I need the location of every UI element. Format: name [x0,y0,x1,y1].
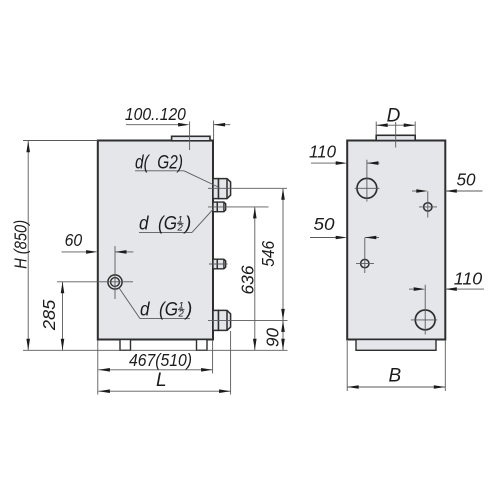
dimension 90 [263,320,285,350]
svg-text:H (850): H (850) [10,220,30,269]
svg-text:50: 50 [457,169,476,189]
extension line port2 centre (636 ref) [208,206,269,208]
front view: left foot [120,340,131,351]
dimension 636 [238,207,258,350]
centre lines small hole lower [356,238,374,273]
svg-text:467(510): 467(510) [129,350,192,370]
dimension 60 [62,230,134,254]
side view: block body [347,141,445,340]
fitting G1/2 lower (port 3) [213,259,226,269]
svg-text:50: 50 [314,214,335,234]
svg-text:d (G: d (G [140,300,178,321]
svg-text:): ) [184,300,192,321]
side view: filler cap [376,135,415,140]
side view: small hole upper-right [424,203,432,211]
front port centre lines [57,246,133,299]
dimension 100..120 [125,104,230,150]
dimension 467(510) [98,340,213,395]
dimension L [98,331,230,395]
fitting G2 upper (port 1) [213,179,231,199]
dimension 285 [39,282,64,351]
side view: small hole lower-left [361,259,369,267]
svg-text:2: 2 [178,309,185,320]
dimension B [347,341,445,392]
centre lines big hole upper [355,160,380,202]
fitting G1/2 upper (port 2) [213,202,226,212]
label d( G2) with leader [135,153,220,188]
side view: base plate [356,340,436,351]
dimension 110 upper-left [309,142,380,165]
centre lines small hole upper [419,191,437,217]
dimension 110 lower-right [409,268,484,291]
side view: big hole lower-right [415,310,435,330]
dimension D [376,106,415,136]
svg-text:636: 636 [238,265,258,294]
svg-text:546: 546 [258,241,278,267]
front face port circle (d G1/2) [108,275,122,289]
svg-text:90: 90 [263,328,283,347]
svg-text:d (G: d (G [139,214,177,235]
dimension H(850) [10,141,98,351]
svg-text:110: 110 [309,142,336,162]
svg-text:): ) [183,214,191,235]
base bottom reference line [23,349,288,351]
fitting G2 lower (port 4) [213,310,231,330]
centre lines big hole lower [411,285,437,335]
svg-text:100..120: 100..120 [125,104,186,124]
svg-text:L: L [156,370,167,391]
svg-text:d( G2): d( G2) [135,153,183,174]
dimension 50 mid-left [310,214,379,239]
svg-text:D: D [387,106,401,127]
label d (G1/2) lower with leader [119,287,193,320]
front view: right foot [197,340,208,351]
label d (G1/2) upper with leader [139,209,214,235]
svg-text:B: B [389,366,402,387]
extension line port1 centre (546 ref) [208,187,287,189]
svg-text:285: 285 [39,299,59,331]
dimension 50 upper-right [412,169,483,193]
extension line port4 centre (90 ref) [208,319,288,321]
svg-text:2: 2 [177,223,184,234]
svg-text:110: 110 [454,268,483,288]
front view: tank body [98,141,213,340]
extension line port3 centre stub [209,263,228,265]
side view: big hole upper-left [357,178,377,198]
front view: filler cap [172,136,210,141]
side view cap centre line [395,122,397,148]
dimension 546 [258,188,285,320]
svg-text:60: 60 [65,230,83,250]
